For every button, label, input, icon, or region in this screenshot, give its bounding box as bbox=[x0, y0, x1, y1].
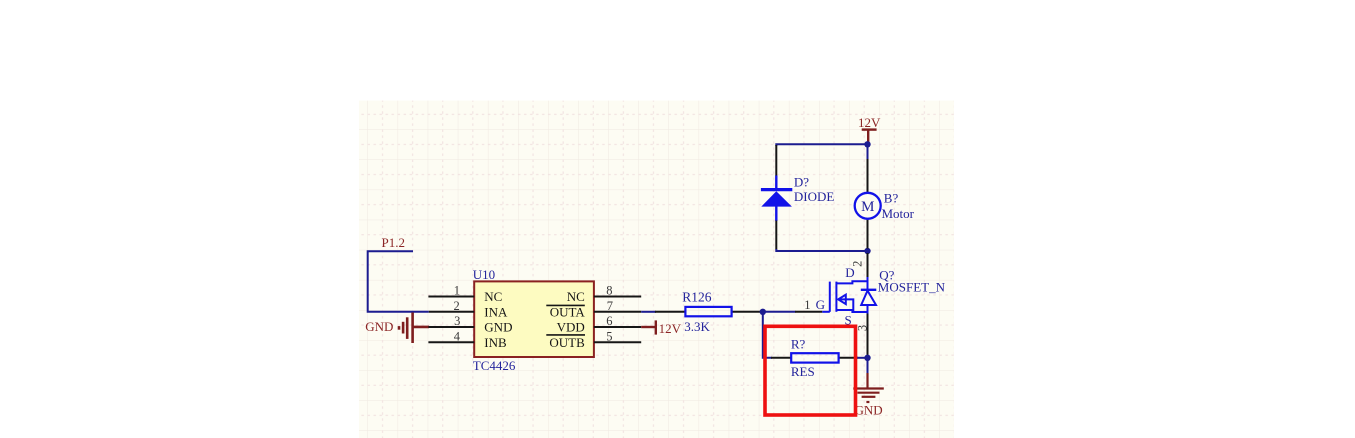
pin 6 VDD bbox=[594, 326, 641, 328]
wire source to ground bbox=[867, 358, 869, 374]
source pin bbox=[867, 313, 869, 355]
svg-text:3: 3 bbox=[855, 325, 869, 331]
svg-text:8: 8 bbox=[606, 284, 612, 298]
svg-text:B?: B? bbox=[884, 190, 899, 205]
svg-text:TC4426: TC4426 bbox=[473, 358, 516, 373]
svg-text:OUTA: OUTA bbox=[550, 304, 586, 319]
svg-text:D: D bbox=[845, 265, 854, 280]
svg-text:RES: RES bbox=[791, 364, 815, 379]
svg-text:P1.2: P1.2 bbox=[382, 235, 405, 250]
wire 12V rail top bbox=[776, 144, 867, 146]
wire P1.2 stub bbox=[368, 251, 429, 312]
svg-text:INB: INB bbox=[484, 335, 507, 350]
svg-text:G: G bbox=[816, 297, 825, 312]
svg-text:R126: R126 bbox=[682, 290, 712, 305]
svg-text:12V: 12V bbox=[659, 321, 682, 336]
pin 4 INB bbox=[428, 341, 474, 343]
svg-text:NC: NC bbox=[567, 289, 585, 304]
wire R126 to gate bbox=[760, 311, 796, 313]
svg-text:VDD: VDD bbox=[557, 320, 585, 335]
motor pins bbox=[867, 144, 869, 159]
pin 8 NC bbox=[594, 296, 641, 298]
svg-text:1: 1 bbox=[804, 298, 810, 312]
wire bottom of diode to motor branch bbox=[776, 249, 867, 251]
svg-text:7: 7 bbox=[607, 299, 613, 313]
svg-text:12V: 12V bbox=[858, 115, 881, 130]
svg-text:GND: GND bbox=[855, 402, 883, 417]
diode D? bbox=[775, 145, 777, 176]
node junction R126/gate/R? bbox=[760, 309, 766, 315]
svg-text:1: 1 bbox=[454, 284, 460, 298]
svg-text:3.3K: 3.3K bbox=[684, 319, 710, 334]
gate pin bbox=[795, 311, 822, 313]
svg-text:NC: NC bbox=[484, 289, 502, 304]
svg-text:Motor: Motor bbox=[882, 206, 915, 221]
highlight rectangle bbox=[765, 326, 856, 415]
node junction motor/drain bbox=[864, 248, 870, 254]
svg-text:GND: GND bbox=[365, 319, 393, 334]
resistor R126 3.3K bbox=[655, 311, 685, 313]
svg-text:M: M bbox=[861, 199, 874, 215]
power port 12V top bbox=[862, 130, 877, 144]
svg-text:MOSFET_N: MOSFET_N bbox=[878, 280, 946, 295]
svg-text:R?: R? bbox=[791, 337, 806, 352]
node junction 12V/motor bbox=[864, 141, 870, 147]
power ground GND bottom bbox=[853, 373, 884, 402]
IC U10 TC4426 MOSFET driver bbox=[474, 281, 594, 357]
svg-text:D?: D? bbox=[794, 174, 809, 189]
svg-text:6: 6 bbox=[606, 314, 612, 328]
pin 1 NC bbox=[428, 296, 474, 298]
svg-text:4: 4 bbox=[454, 329, 461, 343]
wire pin7 to R126 bbox=[641, 311, 656, 313]
pin 5 OUTB bbox=[594, 341, 641, 343]
wire R? to source bbox=[857, 357, 868, 359]
power port 12V at VDD bbox=[641, 320, 656, 334]
node junction source/R?/gnd bbox=[864, 355, 870, 361]
pin 2 INA bbox=[429, 311, 474, 313]
svg-text:INA: INA bbox=[484, 304, 508, 319]
pin 3 GND bbox=[428, 326, 474, 328]
svg-text:U10: U10 bbox=[473, 267, 495, 282]
resistor R? RES bbox=[771, 357, 791, 359]
pin 7 OUTA bbox=[594, 311, 641, 313]
drain pin bbox=[867, 253, 869, 279]
wire junction down to R? bbox=[763, 312, 772, 358]
svg-text:3: 3 bbox=[454, 314, 460, 328]
svg-text:OUTB: OUTB bbox=[549, 335, 585, 350]
svg-text:5: 5 bbox=[606, 329, 612, 343]
svg-text:2: 2 bbox=[454, 299, 460, 313]
svg-text:DIODE: DIODE bbox=[794, 189, 834, 204]
svg-text:GND: GND bbox=[484, 320, 512, 335]
power ground GND left bbox=[399, 313, 429, 344]
mosfet body bbox=[822, 277, 876, 314]
